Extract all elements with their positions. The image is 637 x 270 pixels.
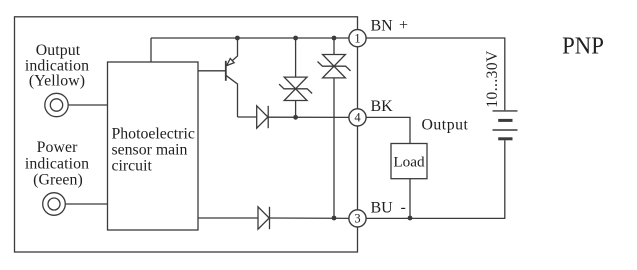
wire: box top to BN rail riser <box>150 38 152 62</box>
photoelectric sensor main circuit box <box>108 62 199 230</box>
wire: D2 to terminal 3 <box>270 217 358 219</box>
wire: battery negative to BU rail to terminal 3 <box>358 140 505 218</box>
svg-text:10...30V: 10...30V <box>484 50 501 108</box>
svg-text:Photoelectric: Photoelectric <box>112 125 195 142</box>
svg-text:BU: BU <box>371 200 394 217</box>
load box <box>391 144 427 179</box>
wire: Q1 collector to diode D1 <box>238 116 257 118</box>
svg-text:Load: Load <box>393 153 425 170</box>
transistor Q1 (PNP) <box>226 38 238 117</box>
outer sensor enclosure border <box>15 17 358 252</box>
svg-text:-: - <box>401 199 406 216</box>
TVS suppressor Z2 (bidirectional zener) <box>318 55 351 78</box>
wire: load bottom to BU rail <box>409 179 411 218</box>
svg-text:4: 4 <box>354 111 361 125</box>
svg-text:sensor main: sensor main <box>112 142 188 159</box>
wire: D1 to terminal 4 <box>268 116 357 118</box>
svg-text:BK: BK <box>371 98 394 115</box>
wire: base of Q1 from circuit box <box>198 70 226 72</box>
svg-text:3: 3 <box>354 212 360 226</box>
junction dot: load / BU rail <box>408 216 413 221</box>
wire: Z2 bottom lead down to BU rail <box>333 78 335 218</box>
diode D1 <box>257 106 269 128</box>
wire: yellow lamp to circuit box <box>68 104 107 106</box>
diode D2 <box>258 207 270 229</box>
junction dot: Z1 / BN rail <box>293 36 298 41</box>
svg-text:indication: indication <box>25 155 89 172</box>
svg-text:(Yellow): (Yellow) <box>29 73 85 90</box>
wire: TVS Z2 top lead <box>333 38 335 55</box>
power indicator lamp (green) <box>43 193 66 216</box>
wire: TVS Z1 top lead <box>295 38 297 77</box>
wire: terminal 4 to load <box>358 117 411 143</box>
TVS suppressor Z1 (bidirectional zener) <box>279 77 312 100</box>
svg-text:PNP: PNP <box>562 33 604 60</box>
label: power indication (green) <box>25 139 89 189</box>
junction dot: Q1 emitter / BN rail <box>235 36 240 41</box>
battery BT1 <box>493 111 518 139</box>
terminal 1 <box>349 30 366 47</box>
svg-text:BN: BN <box>371 17 394 34</box>
svg-text:+: + <box>399 17 408 34</box>
svg-text:1: 1 <box>354 32 360 46</box>
label: output indication (yellow) <box>25 42 89 89</box>
terminal 3 <box>349 210 366 227</box>
wire: box to diode D2 (BU path) <box>198 217 258 219</box>
wire: BN rail to battery positive <box>358 38 505 110</box>
junction dot: Z2 / BU rail <box>332 216 337 221</box>
svg-text:Power: Power <box>37 139 79 156</box>
svg-text:(Green): (Green) <box>33 172 83 189</box>
svg-text:Output: Output <box>422 117 469 134</box>
label: photoelectric sensor main circuit <box>112 125 195 174</box>
junction dot: Z1 / output wire <box>293 115 298 120</box>
wire: green lamp to circuit box <box>65 203 107 205</box>
wire: Z1 bottom lead <box>295 101 297 118</box>
output indicator lamp (yellow) <box>45 93 68 116</box>
wire: BN rail (y=38) from riser to terminal 1 <box>151 37 358 39</box>
svg-text:circuit: circuit <box>112 158 153 175</box>
junction dot: Z2 / BN rail <box>332 36 337 41</box>
terminal 4 <box>349 109 366 126</box>
